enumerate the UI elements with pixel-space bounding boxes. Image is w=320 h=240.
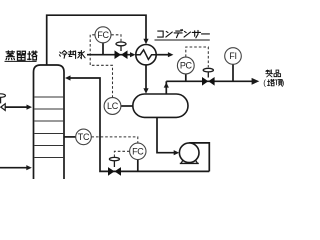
svg-text:FI: FI <box>229 51 236 61</box>
svg-text:(: ( <box>263 78 266 87</box>
svg-text:LC: LC <box>107 101 119 111</box>
svg-text:): ) <box>282 78 285 87</box>
svg-text:PC: PC <box>180 61 193 71</box>
svg-text:FC: FC <box>132 146 144 156</box>
svg-text:TC: TC <box>78 132 90 142</box>
svg-text:FC: FC <box>97 30 109 40</box>
